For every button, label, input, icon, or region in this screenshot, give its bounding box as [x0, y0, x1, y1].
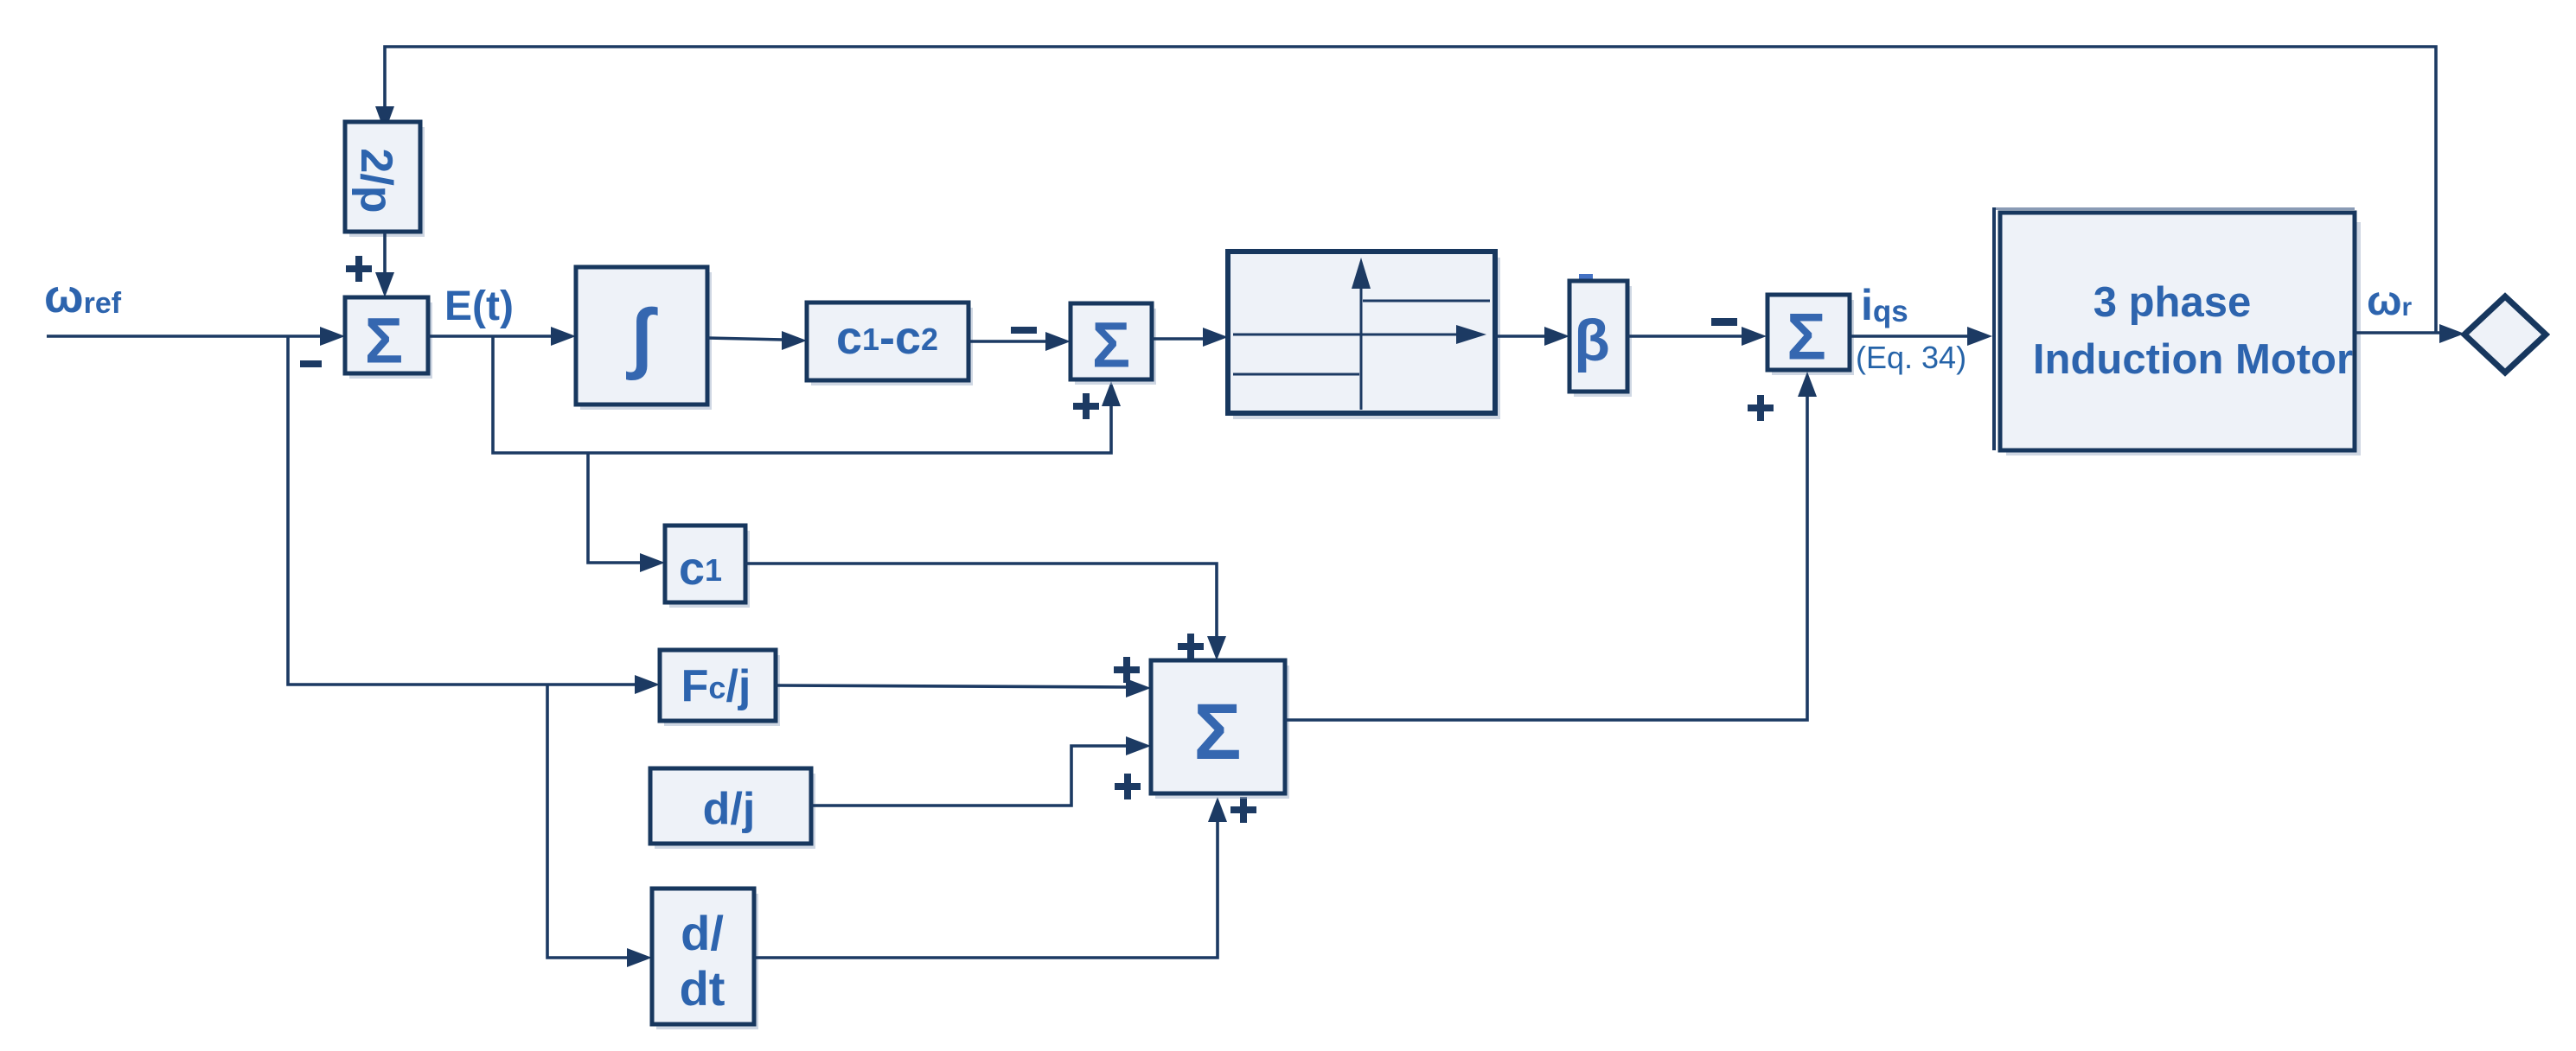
- plus sign sum4 bottom: [1230, 797, 1256, 823]
- label iqs: [1861, 281, 1908, 329]
- wire input omega ref: [47, 327, 345, 346]
- diamond output: [2464, 296, 2546, 373]
- plus sign sum4 left lower: [1115, 774, 1141, 799]
- wire d/dt to sum4 bottom: [754, 797, 1227, 958]
- svg-text:2/p: 2/p: [351, 148, 401, 213]
- wire motor to diamond: [2355, 324, 2464, 343]
- wire beta to sum3: [1627, 327, 1767, 346]
- plus sign sum4 left upper: [1114, 657, 1140, 683]
- block beta: [1569, 281, 1632, 397]
- svg-text:d/j: d/j: [703, 784, 756, 834]
- block d/dt: [652, 889, 758, 1029]
- wire sum2 to relay: [1152, 328, 1228, 347]
- svg-text:Σ: Σ: [1193, 688, 1241, 776]
- relay horizontal axis: [1233, 325, 1486, 344]
- wire branch down to d/dt: [547, 685, 652, 967]
- relay upper level line: [1363, 300, 1490, 303]
- dash artifact above beta: [1579, 274, 1593, 279]
- plus sign sum1 top: [346, 256, 372, 282]
- svg-text:Σ: Σ: [365, 305, 403, 377]
- wire Fc/j to sum4: [776, 678, 1151, 697]
- wire feedback top: [375, 47, 2436, 333]
- minus sign before sum3: [1711, 318, 1737, 326]
- block c1: [665, 525, 750, 608]
- svg-text:(Eq. 34): (Eq. 34): [1856, 340, 1966, 375]
- svg-text:E(t): E(t): [444, 283, 514, 329]
- sum block S1: [345, 297, 432, 379]
- wire c1-c2 to sum2: [968, 332, 1071, 351]
- svg-text:d/: d/: [681, 906, 724, 960]
- relay block: [1228, 252, 1500, 419]
- label E(t): [444, 283, 514, 329]
- relay vertical axis: [1352, 258, 1371, 410]
- wire integrator to c1-c2: [707, 331, 807, 350]
- integrator block: [576, 267, 712, 410]
- wire sum1 to integrator: [428, 327, 576, 346]
- minus sign before sum2: [1011, 327, 1037, 334]
- sum block S3: [1767, 295, 1854, 375]
- block Fc/j: [660, 650, 780, 726]
- sum block S2: [1071, 303, 1156, 385]
- minus sign sum1 left: [300, 360, 322, 367]
- svg-text:Induction Motor: Induction Motor: [2033, 336, 2353, 383]
- wire relay to beta: [1495, 327, 1569, 346]
- wire 2/p to sum1: [375, 232, 394, 297]
- label omega r: [2367, 278, 2413, 324]
- wire d/j to sum4: [811, 736, 1151, 806]
- wire minus branch down to Fc/j: [288, 336, 660, 694]
- plus sign sum2 bottom: [1073, 393, 1099, 419]
- label Eq 34: [1856, 340, 1966, 375]
- wire c1 to sum4 top: [745, 564, 1226, 660]
- block 2/p: [345, 122, 425, 237]
- svg-text:β: β: [1574, 308, 1610, 373]
- relay lower level line: [1233, 373, 1359, 376]
- svg-text:dt: dt: [680, 961, 725, 1016]
- plus sign sum3 bottom: [1748, 395, 1774, 421]
- wire sum3 to motor: [1851, 327, 1992, 346]
- svg-text:Σ: Σ: [1092, 309, 1130, 381]
- block d/j: [650, 768, 815, 849]
- svg-text:Σ: Σ: [1787, 301, 1826, 374]
- block c1-c2: [807, 303, 973, 385]
- svg-text:Fc/j: Fc/j: [681, 661, 751, 711]
- svg-text:3 phase: 3 phase: [2093, 279, 2251, 326]
- wire E(t) branch down: [493, 336, 1121, 453]
- wire sum4 to sum3: [1285, 372, 1817, 720]
- wire branch to c1: [588, 453, 665, 572]
- label omega ref: [44, 271, 122, 322]
- sum block S4: [1151, 660, 1289, 799]
- plus sign sum4 top: [1178, 634, 1204, 659]
- motor block: [1992, 207, 2361, 455]
